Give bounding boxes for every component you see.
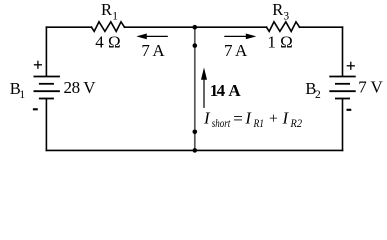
svg-text:7 V: 7 V [358,78,383,97]
svg-text:4 Ω: 4 Ω [95,32,120,51]
svg-text:14: 14 [210,81,226,100]
svg-text:R2: R2 [290,118,303,130]
svg-text:1: 1 [19,89,25,101]
svg-text:3: 3 [283,11,289,23]
svg-text:R: R [101,0,112,19]
svg-text:R1: R1 [253,118,264,130]
svg-text:A: A [228,81,241,100]
svg-text:2: 2 [315,89,321,101]
svg-text:short: short [212,118,231,130]
svg-text:28 V: 28 V [64,78,97,97]
svg-text:R: R [272,0,283,19]
svg-text:1 Ω: 1 Ω [267,32,292,51]
svg-text:+: + [269,110,278,127]
svg-text:7 A: 7 A [141,41,165,60]
svg-text:7 A: 7 A [224,41,248,60]
svg-text:1: 1 [112,10,118,22]
svg-text:=: = [233,109,243,128]
